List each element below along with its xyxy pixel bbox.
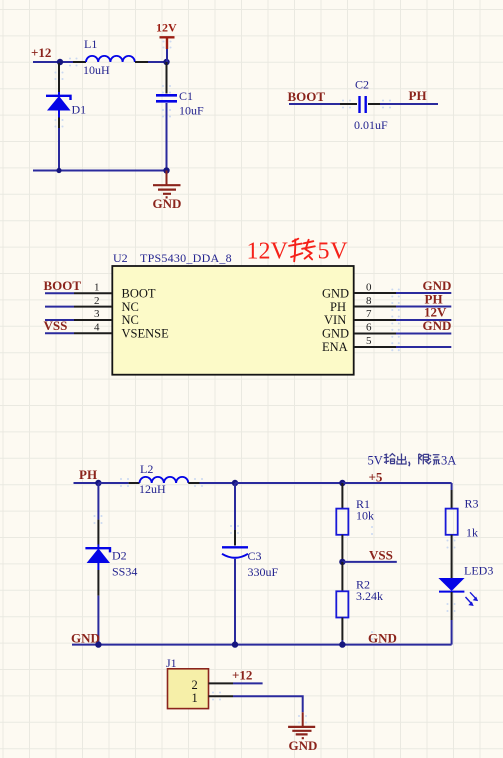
svg-text:C3: C3 — [248, 549, 262, 563]
svg-text:SS34: SS34 — [112, 565, 137, 579]
svg-text:NC: NC — [122, 313, 139, 327]
svg-text:2: 2 — [192, 678, 198, 692]
inductor L2 pin 1 — [129, 482, 140, 484]
junction 12V node — [163, 59, 169, 65]
svg-text:330uF: 330uF — [248, 565, 279, 579]
hotspot marks — [54, 40, 455, 723]
svg-text:LED3: LED3 — [464, 564, 493, 578]
capacitor C2 plates — [360, 96, 366, 113]
svg-text:BOOT: BOOT — [44, 278, 82, 293]
svg-text:5V: 5V — [318, 239, 349, 265]
svg-text:PH: PH — [330, 300, 346, 314]
resistor R3 body — [446, 509, 458, 535]
junction R2/rail — [339, 641, 345, 647]
svg-text:PH: PH — [79, 467, 97, 482]
svg-text:+5: +5 — [369, 470, 383, 485]
svg-text:VSS: VSS — [369, 548, 393, 563]
pin 2 lead (J1) — [209, 682, 234, 684]
pin 9 GND lead — [354, 292, 396, 294]
wire pin1 to ground — [233, 696, 303, 712]
svg-text:NC: NC — [122, 300, 139, 314]
svg-text:6: 6 — [366, 322, 372, 334]
ground rail wire — [33, 170, 167, 172]
inductor L1 pin 2 — [135, 61, 148, 63]
junction R1 — [339, 480, 345, 486]
title 12V to 5V (red) — [247, 239, 349, 265]
ground symbol GND (top) — [153, 171, 181, 198]
junction C3 — [232, 480, 238, 486]
pin 8 PH lead — [354, 306, 396, 308]
pin 2 lead — [74, 306, 112, 308]
svg-text:U2: U2 — [113, 251, 128, 265]
ground symbol GND (J1) — [288, 712, 315, 738]
svg-text:12V: 12V — [247, 239, 289, 265]
hanzi shu (transport) — [384, 454, 396, 464]
LED3 pin 2 — [451, 592, 453, 620]
svg-text:GND: GND — [71, 631, 100, 646]
wire D1 to ground rail — [58, 128, 60, 171]
capacitor C2 pin 2 — [368, 103, 380, 105]
diode D2 pin (anode) — [97, 570, 99, 596]
svg-text:VIN: VIN — [324, 313, 346, 327]
svg-text:7: 7 — [366, 308, 372, 320]
wire VSS stub — [342, 561, 396, 563]
junction D1/ground rail — [56, 168, 61, 173]
wire R1 node to R3 corner — [342, 482, 451, 484]
wire pin2 to +12 — [233, 682, 263, 684]
svg-text:ENA: ENA — [322, 340, 348, 354]
wire R2 to rail — [341, 640, 343, 645]
capacitor C3 pin 2 / wire to rail — [234, 559, 236, 645]
pin 7 wire — [396, 319, 451, 321]
junction C1/ground rail — [163, 167, 169, 173]
svg-text:GND: GND — [289, 738, 318, 753]
resistor R3 pin 1 — [451, 490, 453, 509]
wire D2 to ground rail — [97, 596, 99, 645]
note 5V output current limit 3A — [368, 454, 457, 468]
diode D1 pin (cathode) — [58, 63, 60, 92]
fullwidth comma — [408, 462, 411, 466]
LED3 emission arrows — [466, 592, 477, 603]
pin 4 VSENSE wire — [45, 332, 74, 334]
svg-text:2: 2 — [94, 295, 100, 307]
diode D2 symbol — [85, 545, 110, 571]
svg-text:3: 3 — [94, 308, 100, 320]
svg-text:D1: D1 — [72, 103, 87, 117]
junction C3/rail — [232, 641, 238, 647]
svg-text:10uF: 10uF — [179, 104, 204, 118]
svg-text:8: 8 — [366, 295, 372, 307]
svg-text:C2: C2 — [355, 78, 369, 92]
capacitor C3 pin 1 — [234, 483, 236, 530]
svg-text:12uH: 12uH — [139, 482, 166, 496]
J1 body — [168, 669, 209, 709]
wire L2 to C3 node — [200, 482, 236, 484]
pin 6 GND lead — [354, 333, 396, 335]
svg-text:L1: L1 — [84, 37, 97, 51]
wire +12 to D1 node — [33, 61, 60, 63]
wire PH to D2 node — [74, 482, 99, 484]
svg-text:GND: GND — [153, 196, 182, 211]
wire 12V port to node — [166, 49, 168, 62]
capacitor C3 plates (polarized) — [222, 547, 248, 558]
wire D2 node to L2 — [98, 482, 128, 484]
pin 3 wire — [45, 319, 74, 321]
svg-text:R3: R3 — [465, 497, 479, 511]
svg-text:5V: 5V — [368, 454, 383, 468]
svg-text:BOOT: BOOT — [288, 89, 326, 104]
inductor L1 coil — [86, 56, 135, 62]
resistor R2 pin 2 — [341, 618, 343, 641]
LED LED3 symbol — [438, 578, 478, 606]
pin 8 wire — [396, 306, 451, 308]
svg-text:10uH: 10uH — [83, 63, 110, 77]
junction PH/D2 — [95, 480, 101, 486]
svg-text:0.01uF: 0.01uF — [354, 118, 388, 132]
pin 1 lead — [74, 292, 112, 294]
svg-text:BOOT: BOOT — [122, 287, 156, 301]
svg-text:L2: L2 — [140, 462, 153, 476]
capacitor C1 plates — [156, 95, 177, 101]
wire D1 node to L1 — [60, 61, 73, 63]
svg-text:10k: 10k — [356, 509, 374, 523]
inductor L1 pin 1 — [73, 61, 86, 63]
resistor R1 pin 2 — [341, 535, 343, 562]
ground rail (output) — [72, 644, 452, 646]
pin 1 lead (J1) — [209, 695, 234, 697]
svg-text:D2: D2 — [112, 549, 127, 563]
pin 1 BOOT wire — [45, 292, 74, 294]
hanzi chu (out) — [397, 454, 406, 465]
svg-text:1: 1 — [192, 691, 198, 705]
wire L1 to 12V node — [148, 61, 167, 63]
junction VSS — [339, 559, 345, 565]
hanzi liu (flow) — [429, 455, 440, 465]
resistor R1 pin 1 — [341, 483, 343, 509]
wire C2 to PH — [380, 103, 438, 105]
svg-text:4: 4 — [94, 322, 100, 334]
svg-text:3.24k: 3.24k — [356, 589, 383, 603]
svg-text:C1: C1 — [179, 89, 193, 103]
svg-text:VSENSE: VSENSE — [122, 327, 170, 341]
svg-text:0: 0 — [366, 282, 372, 294]
inductor L2 coil — [140, 477, 189, 483]
wire BOOT to C2 — [289, 103, 340, 105]
inductor L2 pin 2 — [188, 482, 199, 484]
wire C3 node to R1 node — [235, 482, 342, 484]
pin 2 wire — [45, 306, 74, 308]
svg-text:3A: 3A — [441, 454, 456, 468]
resistor R2 pin 1 — [341, 562, 343, 591]
svg-text:GND: GND — [423, 318, 452, 333]
hanzi xian (limit) — [419, 454, 430, 465]
resistor R2 body — [336, 591, 348, 617]
svg-text:TPS5430_DDA_8: TPS5430_DDA_8 — [140, 251, 232, 265]
svg-text:J1: J1 — [166, 656, 177, 670]
wire LED3 to rail corner — [451, 620, 453, 645]
pin 3 lead — [74, 319, 112, 321]
pin 9 wire — [396, 292, 451, 294]
pin 5 wire — [396, 346, 451, 348]
resistor R3 pin 2 — [451, 535, 453, 578]
svg-text:1k: 1k — [466, 526, 478, 540]
svg-text:+12: +12 — [232, 668, 252, 683]
svg-text:5: 5 — [366, 335, 372, 347]
svg-text:VSS: VSS — [44, 318, 68, 333]
U2 body — [112, 266, 353, 375]
junction +12/D1 — [57, 59, 63, 65]
pin 6 wire — [396, 333, 451, 335]
diode D2 pin (cathode) — [97, 483, 99, 520]
svg-text:GND: GND — [322, 287, 349, 301]
pin 4 lead — [74, 332, 112, 334]
capacitor C1 pin 2 / wire to rail — [166, 103, 168, 171]
diode D1 symbol — [46, 92, 71, 118]
pin 5 ENA lead — [354, 346, 396, 348]
capacitor C2 pin 1 — [340, 103, 357, 105]
svg-text:12V: 12V — [156, 21, 177, 35]
capacitor C1 pin 1 — [166, 62, 168, 94]
diode D1 pin (anode) — [58, 118, 60, 129]
wire corner to R3 — [451, 483, 453, 490]
svg-text:GND: GND — [322, 327, 349, 341]
svg-text:PH: PH — [409, 88, 427, 103]
hanzi zhuan (convert) — [289, 239, 315, 262]
svg-text:+12: +12 — [31, 45, 51, 60]
junction D2/rail — [95, 641, 101, 647]
resistor R1 body — [336, 509, 348, 535]
svg-text:1: 1 — [94, 282, 100, 294]
pin 7 VIN lead — [354, 319, 396, 321]
